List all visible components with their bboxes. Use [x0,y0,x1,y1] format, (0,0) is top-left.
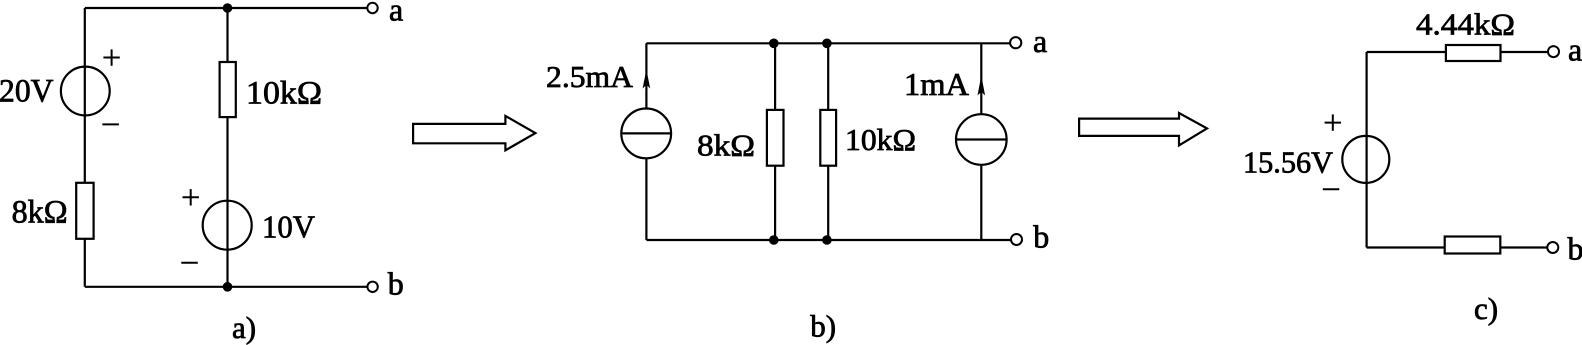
resistor 8kOhm (a) [76,183,93,239]
resistor 10kOhm (a) [220,62,236,117]
resistor 8kOhm (b) [767,110,784,166]
svg-text:c): c) [1474,291,1498,326]
wire: left branch c-circuit [1365,52,1367,248]
wire: bottom wire c-circuit [1367,246,1548,248]
svg-text:10kΩ: 10kΩ [845,122,916,157]
polarity + of 10V [183,189,199,205]
wire: top wire a-circuit [85,7,367,9]
svg-text:15.56V: 15.56V [1243,145,1333,179]
node dot bottom (a) [223,282,233,292]
wire: left vertical branch [84,8,86,287]
resistor 10kOhm (b) [820,110,836,166]
wire: top wire c-circuit [1367,51,1548,53]
svg-text:10kΩ: 10kΩ [246,76,322,112]
svg-text:8kΩ: 8kΩ [697,127,755,162]
svg-text:a: a [389,0,403,28]
svg-text:8kΩ: 8kΩ [12,195,68,231]
terminal b (b-circuit) [1011,234,1022,245]
svg-text:b: b [388,266,404,302]
wire: bottom wire a-circuit [85,286,367,288]
node dot bottom-right (b) [822,235,832,245]
svg-text:b: b [1033,218,1049,254]
wire: 8k branch b-circuit [774,43,776,240]
svg-text:20V: 20V [0,74,54,110]
terminal a (a-circuit) [367,3,377,13]
transform arrow 1 [413,116,535,150]
svg-text:a: a [1033,23,1047,59]
wire: middle vertical branch [226,8,228,287]
polarity - of 20V [102,123,119,125]
resistor 4.44kOhm [1446,45,1501,61]
polarity - of 15.56V [1323,188,1340,190]
current arrow 1mA [978,76,986,96]
node dot top-right (b) [822,39,832,49]
wire: bottom wire b-circuit [646,239,1011,241]
current source 1mA [956,114,1007,165]
wire: left branch b-circuit [645,43,647,240]
svg-text:b): b) [810,308,836,343]
svg-text:4.44kΩ: 4.44kΩ [1416,7,1515,42]
node dot top-left (b) [769,39,779,49]
svg-text:10V: 10V [262,209,315,245]
wire: right branch b-circuit [980,43,982,240]
terminal a (b-circuit) [1010,37,1021,48]
wire: 10k branch b-circuit [827,43,829,240]
current arrow 2.5mA [643,70,651,89]
current source 2.5mA [621,108,671,158]
terminal b (a-circuit) [367,282,377,292]
svg-text:1mA: 1mA [904,67,969,102]
voltage source 15.56V [1342,136,1389,183]
voltage source 20V [61,67,110,116]
svg-text:a: a [1568,31,1582,67]
node dot bottom-left (b) [769,235,779,245]
transform arrow 2 [1079,113,1207,145]
voltage source 10V [203,201,252,250]
polarity + of 20V [103,49,119,65]
wire: top wire b-circuit [646,42,1010,44]
svg-text:a): a) [232,310,256,345]
terminal a (c-circuit) [1548,46,1559,57]
node dot top (a) [223,3,233,13]
svg-text:b: b [1568,231,1582,267]
polarity - of 10V [181,262,198,264]
terminal b (c-circuit) [1547,242,1558,253]
resistor bottom (c) [1445,237,1501,254]
svg-text:2.5mA: 2.5mA [546,59,634,94]
polarity + of 15.56V [1325,114,1341,130]
